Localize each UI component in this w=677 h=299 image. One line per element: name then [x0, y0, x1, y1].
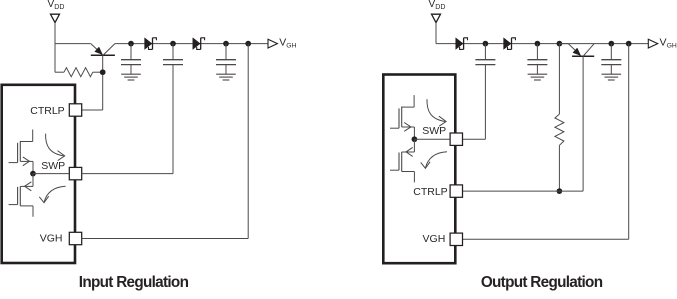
svg-text:V: V [279, 37, 286, 49]
svg-text:CTRLP: CTRLP [413, 186, 447, 198]
svg-text:Input Regulation: Input Regulation [79, 274, 189, 291]
svg-text:CTRLP: CTRLP [30, 105, 64, 117]
svg-text:SWP: SWP [422, 125, 446, 137]
svg-text:SWP: SWP [41, 160, 65, 172]
svg-text:VGH: VGH [40, 233, 63, 245]
svg-text:GH: GH [667, 42, 677, 49]
svg-text:DD: DD [435, 4, 445, 11]
svg-text:DD: DD [54, 4, 64, 11]
svg-text:GH: GH [286, 42, 296, 49]
svg-text:Output Regulation: Output Regulation [481, 274, 603, 291]
svg-text:VGH: VGH [423, 233, 446, 245]
svg-text:V: V [660, 37, 667, 49]
